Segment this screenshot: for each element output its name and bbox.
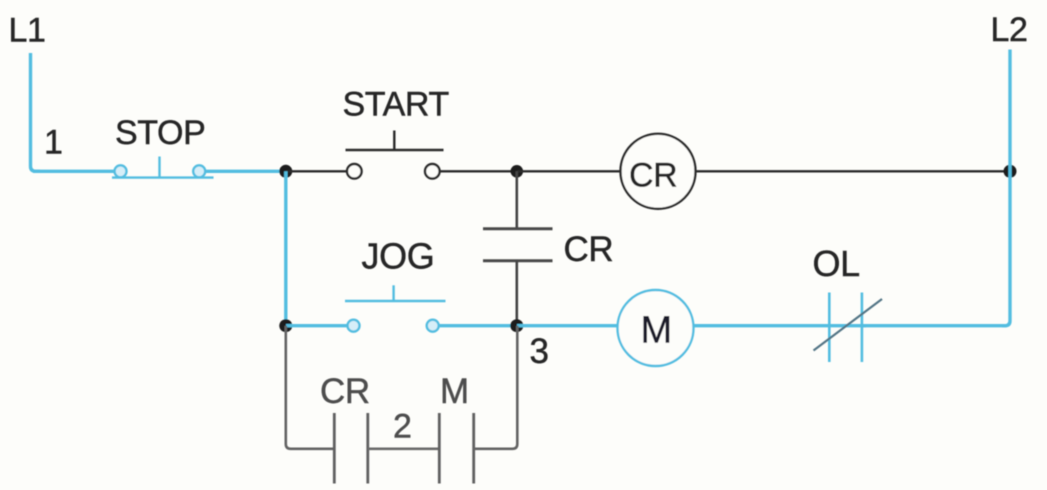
svg-text:CR: CR — [320, 372, 370, 411]
svg-text:START: START — [343, 85, 449, 123]
svg-text:2: 2 — [393, 408, 412, 446]
svg-text:OL: OL — [813, 243, 860, 284]
svg-text:L1: L1 — [9, 12, 46, 50]
svg-text:M: M — [440, 372, 469, 411]
svg-text:CR: CR — [629, 157, 677, 195]
svg-text:1: 1 — [44, 124, 63, 162]
svg-text:3: 3 — [530, 332, 549, 371]
svg-text:CR: CR — [564, 230, 614, 269]
svg-text:STOP: STOP — [115, 114, 205, 152]
svg-text:JOG: JOG — [362, 235, 435, 276]
svg-text:M: M — [641, 310, 672, 352]
svg-text:L2: L2 — [991, 11, 1028, 49]
